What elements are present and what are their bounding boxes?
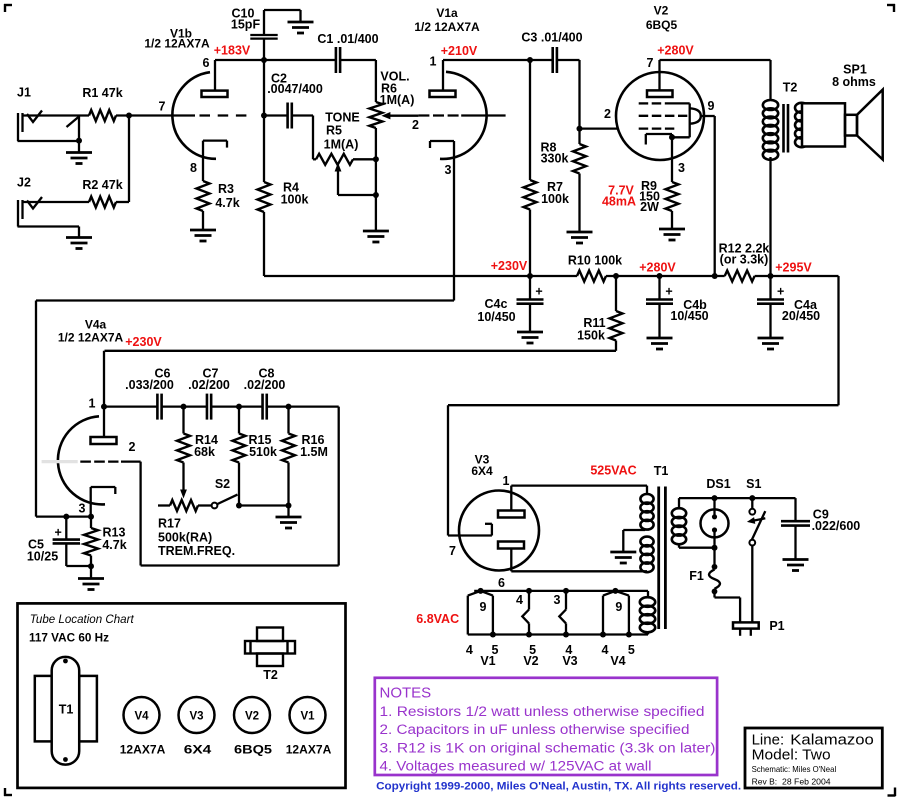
svg-text:+280V: +280V xyxy=(657,44,694,58)
svg-text:S1: S1 xyxy=(746,477,761,491)
svg-text:R5: R5 xyxy=(326,124,342,138)
svg-text:1/2 12AX7A: 1/2 12AX7A xyxy=(58,331,124,345)
svg-text:V4a: V4a xyxy=(85,318,107,332)
svg-text:100k: 100k xyxy=(541,192,569,206)
svg-text:+: + xyxy=(535,285,542,299)
svg-text:.022/600: .022/600 xyxy=(812,519,861,533)
svg-text:+: + xyxy=(665,285,672,299)
svg-text:1.5M: 1.5M xyxy=(300,445,328,459)
svg-text:28 Feb 2004: 28 Feb 2004 xyxy=(782,776,831,786)
svg-text:T1: T1 xyxy=(59,703,74,717)
svg-text:48mA: 48mA xyxy=(602,195,636,209)
svg-text:C4c: C4c xyxy=(485,297,508,311)
svg-text:R2 47k: R2 47k xyxy=(82,178,122,192)
svg-text:F1: F1 xyxy=(689,569,704,583)
svg-text:R10 100k: R10 100k xyxy=(568,254,622,268)
svg-text:.02/200: .02/200 xyxy=(244,378,286,392)
svg-text:S2: S2 xyxy=(215,477,230,491)
svg-text:330k: 330k xyxy=(541,152,569,166)
svg-text:.02/200: .02/200 xyxy=(188,378,230,392)
svg-text:+210V: +210V xyxy=(441,44,478,58)
svg-text:6: 6 xyxy=(203,56,210,70)
svg-text:1. Resistors 1/2 watt unless o: 1. Resistors 1/2 watt unless otherwise s… xyxy=(380,704,705,720)
svg-text:1M(A): 1M(A) xyxy=(324,138,359,152)
svg-text:68k: 68k xyxy=(194,445,215,459)
svg-text:+: + xyxy=(55,526,62,540)
svg-text:500k(RA): 500k(RA) xyxy=(158,531,212,545)
svg-text:J1: J1 xyxy=(17,86,31,100)
svg-text:4.7k: 4.7k xyxy=(102,538,126,552)
svg-text:12AX7A: 12AX7A xyxy=(120,743,166,757)
svg-text:Tube Location Chart: Tube Location Chart xyxy=(30,612,135,626)
svg-text:Rev B:: Rev B: xyxy=(752,776,778,786)
svg-text:4: 4 xyxy=(516,593,523,607)
svg-text:2: 2 xyxy=(129,440,136,454)
svg-text:6: 6 xyxy=(498,576,505,590)
svg-text:2. Capacitors in uF unless oth: 2. Capacitors in uF unless otherwise spe… xyxy=(380,722,690,738)
svg-text:(or 3.3k): (or 3.3k) xyxy=(720,253,769,267)
svg-text:12AX7A: 12AX7A xyxy=(286,743,332,757)
svg-text:C3 .01/400: C3 .01/400 xyxy=(521,31,582,45)
svg-text:V2: V2 xyxy=(245,711,259,723)
svg-text:6BQ5: 6BQ5 xyxy=(646,18,678,32)
svg-text:Copyright 1999-2000, Miles O'N: Copyright 1999-2000, Miles O'Neal, Austi… xyxy=(376,780,741,792)
svg-text:10/450: 10/450 xyxy=(670,309,708,323)
svg-text:1: 1 xyxy=(430,55,437,69)
svg-text:2W: 2W xyxy=(640,200,659,214)
svg-text:4: 4 xyxy=(602,643,609,657)
svg-text:Model: Two: Model: Two xyxy=(752,747,831,764)
svg-text:R3: R3 xyxy=(218,182,234,196)
svg-text:Schematic: Miles O'Neal: Schematic: Miles O'Neal xyxy=(752,764,837,774)
svg-text:10/25: 10/25 xyxy=(27,550,58,564)
svg-text:4. Voltages measured w/ 125VAC: 4. Voltages measured w/ 125VAC at wall xyxy=(380,759,652,775)
svg-text:1/2 12AX7A: 1/2 12AX7A xyxy=(144,37,210,51)
svg-text:1/2 12AX7A: 1/2 12AX7A xyxy=(414,20,480,34)
svg-text:1M(A): 1M(A) xyxy=(380,93,415,107)
svg-text:3: 3 xyxy=(554,593,561,607)
svg-text:525VAC: 525VAC xyxy=(590,464,636,478)
svg-text:V2: V2 xyxy=(523,654,538,668)
svg-text:4.7k: 4.7k xyxy=(215,196,239,210)
svg-text:7: 7 xyxy=(449,544,456,558)
svg-text:J2: J2 xyxy=(17,176,31,190)
svg-text:3: 3 xyxy=(79,502,86,516)
svg-text:P1: P1 xyxy=(769,619,784,633)
svg-text:4: 4 xyxy=(466,643,473,657)
svg-text:V1: V1 xyxy=(480,654,495,668)
svg-text:7: 7 xyxy=(159,100,166,114)
svg-text:9: 9 xyxy=(708,99,715,113)
svg-text:T2: T2 xyxy=(783,81,798,95)
svg-text:+183V: +183V xyxy=(214,44,251,58)
svg-text:TREM.FREQ.: TREM.FREQ. xyxy=(158,544,235,558)
svg-text:V1: V1 xyxy=(300,711,315,723)
svg-text:T1: T1 xyxy=(654,464,669,478)
svg-text:3. R12 is 1K on original schem: 3. R12 is 1K on original schematic (3.3k… xyxy=(380,740,716,756)
svg-text:1: 1 xyxy=(503,474,510,488)
svg-text:2: 2 xyxy=(604,107,611,121)
svg-text:V1a: V1a xyxy=(436,6,458,20)
svg-text:+280V: +280V xyxy=(639,261,676,275)
svg-text:5: 5 xyxy=(628,643,635,657)
svg-text:6BQ5: 6BQ5 xyxy=(234,743,272,757)
svg-text:9: 9 xyxy=(480,600,487,614)
svg-text:T2: T2 xyxy=(263,668,278,682)
svg-text:R17: R17 xyxy=(158,517,181,531)
svg-text:3: 3 xyxy=(678,161,685,175)
svg-text:1: 1 xyxy=(89,397,96,411)
svg-text:NOTES: NOTES xyxy=(380,684,432,701)
svg-text:150k: 150k xyxy=(577,329,605,343)
svg-text:R1 47k: R1 47k xyxy=(82,86,122,100)
svg-text:V3: V3 xyxy=(189,711,203,723)
svg-text:6X4: 6X4 xyxy=(184,743,212,757)
svg-text:V2: V2 xyxy=(654,4,669,18)
svg-text:6X4: 6X4 xyxy=(471,464,493,478)
svg-text:V4: V4 xyxy=(610,654,625,668)
svg-text:117 VAC 60 Hz: 117 VAC 60 Hz xyxy=(29,631,109,645)
svg-text:7: 7 xyxy=(647,56,654,70)
svg-text:3: 3 xyxy=(445,163,452,177)
svg-text:+: + xyxy=(777,285,784,299)
svg-text:6.8VAC: 6.8VAC xyxy=(416,612,459,626)
svg-text:9: 9 xyxy=(615,600,622,614)
svg-text:100k: 100k xyxy=(281,193,309,207)
svg-text:10/450: 10/450 xyxy=(477,310,515,324)
svg-text:+230V: +230V xyxy=(125,335,162,349)
svg-text:+230V: +230V xyxy=(491,259,528,273)
svg-text:8 ohms: 8 ohms xyxy=(832,75,876,89)
svg-text:8: 8 xyxy=(190,161,197,175)
svg-text:510k: 510k xyxy=(249,445,277,459)
svg-text:.0047/400: .0047/400 xyxy=(267,82,323,96)
svg-text:+295V: +295V xyxy=(775,261,812,275)
svg-text:20/450: 20/450 xyxy=(782,309,820,323)
svg-text:TONE: TONE xyxy=(325,111,360,125)
svg-text:V3: V3 xyxy=(562,654,577,668)
svg-text:V4: V4 xyxy=(134,711,149,723)
svg-text:2: 2 xyxy=(412,118,419,132)
svg-text:DS1: DS1 xyxy=(706,477,730,491)
svg-text:.033/200: .033/200 xyxy=(125,378,174,392)
svg-text:C1 .01/400: C1 .01/400 xyxy=(317,32,378,46)
svg-text:15pF: 15pF xyxy=(231,18,261,32)
